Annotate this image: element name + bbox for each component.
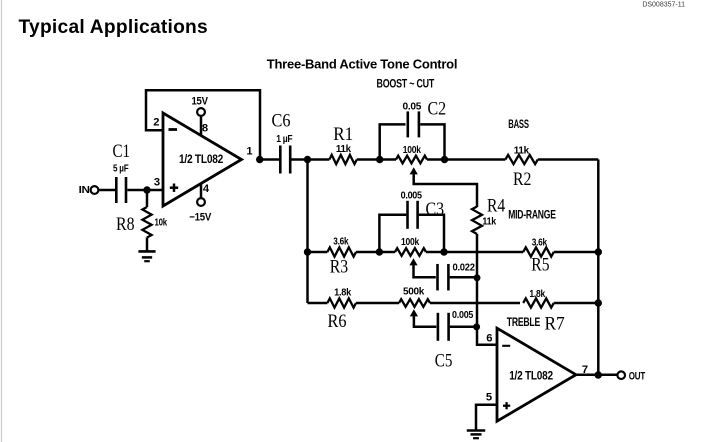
wire IN to C1 — [98, 189, 115, 192]
svg-text:0.005: 0.005 — [452, 310, 474, 321]
node after C6 — [304, 156, 311, 163]
wire -15V supply — [200, 184, 203, 199]
wire bus to R3 — [308, 251, 328, 254]
wire C3 branch right — [419, 215, 444, 252]
svg-text:C2: C2 — [428, 98, 447, 119]
svg-text:10k: 10k — [155, 218, 168, 229]
svg-text:BOOST ~ CUT: BOOST ~ CUT — [377, 77, 435, 91]
resistor R1 — [329, 155, 356, 164]
left bus wire — [306, 160, 309, 304]
svg-text:6: 6 — [486, 332, 492, 344]
svg-text:C1: C1 — [113, 141, 131, 162]
wire R5 to right bus — [554, 251, 599, 254]
wire 15V supply — [200, 116, 203, 136]
svg-text:R1: R1 — [333, 124, 353, 145]
svg-text:TREBLE: TREBLE — [507, 317, 541, 329]
svg-text:3: 3 — [154, 177, 160, 189]
wire R8 to ground — [146, 238, 149, 252]
wire feedback loop U1 — [146, 90, 260, 159]
svg-text:DS008357-11: DS008357-11 — [642, 2, 685, 9]
svg-text:1: 1 — [246, 146, 252, 158]
resistor R4 — [472, 207, 482, 235]
svg-text:100k: 100k — [401, 237, 419, 248]
op-amp U1 minus sign — [169, 128, 178, 131]
svg-text:1.8k: 1.8k — [529, 289, 545, 300]
wiper arrow P2 — [409, 258, 417, 265]
svg-text:C6: C6 — [272, 110, 291, 131]
svg-text:IN: IN — [79, 185, 90, 196]
terminal -15V — [197, 198, 205, 206]
op-amp U2 minus sign — [502, 345, 510, 347]
svg-text:MID-RANGE: MID-RANGE — [508, 210, 556, 222]
svg-text:R7: R7 — [545, 313, 565, 334]
capacitor C3 — [406, 201, 409, 229]
resistor R7 — [523, 298, 554, 307]
ground input — [138, 250, 155, 253]
wire R2 to right bus corner — [538, 158, 599, 161]
svg-text:OUT: OUT — [629, 371, 646, 383]
wire C2 branch left — [380, 124, 406, 159]
terminal IN — [91, 186, 99, 194]
svg-text:15V: 15V — [192, 96, 209, 108]
wire R1 to node — [357, 158, 380, 161]
wire C5 to node Y — [450, 326, 477, 329]
page edge line — [1, 0, 3, 442]
svg-text:BASS: BASS — [508, 119, 529, 131]
node rail A left of pot — [376, 156, 383, 163]
node rail B right of pot — [440, 248, 447, 255]
svg-text:C5: C5 — [435, 351, 453, 372]
svg-text:5 µF: 5 µF — [113, 164, 128, 175]
wire wiper P2 to C4 — [414, 267, 436, 278]
svg-text:Typical Applications: Typical Applications — [19, 17, 208, 38]
svg-text:5: 5 — [486, 391, 492, 403]
svg-text:R2: R2 — [513, 169, 531, 190]
wire C2 branch right — [420, 124, 444, 159]
op-amp U2 1/2 TL082 — [497, 328, 576, 421]
resistor R2 — [505, 155, 537, 164]
svg-text:8: 8 — [202, 123, 208, 135]
wire pot P1 to node — [427, 158, 445, 161]
wire C3 branch left — [379, 215, 406, 252]
svg-text:0.05: 0.05 — [403, 102, 422, 113]
resistor R5 — [523, 247, 554, 256]
wire U1 out to C6 — [260, 158, 280, 161]
ground U2 — [467, 429, 486, 432]
wire wiper P1 to R4 — [414, 176, 477, 208]
wire C4 to node X — [450, 276, 477, 279]
svg-text:3.6k: 3.6k — [532, 238, 548, 249]
wire U2 output — [576, 373, 617, 376]
op-amp U1 plus sign — [170, 186, 178, 189]
wire R7 to right bus — [554, 302, 599, 305]
resistor R6 — [327, 298, 356, 307]
wire node to pot P1 — [380, 158, 396, 161]
wire pot P3 to R7 crossing wiper bus — [430, 302, 520, 305]
node U2 output — [595, 371, 602, 378]
wire R4 to node X — [476, 234, 479, 278]
svg-text:1 µF: 1 µF — [276, 134, 292, 145]
terminal 15V — [197, 108, 205, 116]
svg-text:1.8k: 1.8k — [334, 288, 351, 299]
potentiometer P1 100k bass — [396, 156, 427, 164]
wire wiper P3 to C5 — [414, 318, 436, 327]
capacitor C6 — [279, 146, 282, 174]
wire node to R2 — [445, 158, 506, 161]
svg-text:R8: R8 — [116, 214, 135, 235]
wire node X to node Y — [476, 277, 479, 327]
capacitor C5 — [437, 313, 440, 341]
svg-text:R4: R4 — [487, 196, 506, 217]
right bus wire — [597, 160, 600, 376]
svg-text:11k: 11k — [514, 145, 530, 156]
wire rail A node to R1 — [308, 158, 330, 161]
svg-text:1/2 TL082: 1/2 TL082 — [179, 152, 224, 166]
wire pot P2 to node — [426, 251, 444, 254]
svg-text:C3: C3 — [426, 199, 445, 220]
svg-text:R3: R3 — [330, 256, 348, 277]
node U1 output — [256, 156, 263, 163]
potentiometer P3 500k treble — [399, 299, 430, 307]
wiper arrow P3 — [410, 309, 418, 316]
terminal OUT — [617, 371, 625, 379]
svg-text:1/2 TL082: 1/2 TL082 — [509, 369, 553, 383]
svg-text:Three-Band Active Tone Control: Three-Band Active Tone Control — [267, 57, 457, 72]
node rail B right bus — [595, 248, 602, 255]
svg-text:500k: 500k — [403, 287, 425, 298]
svg-text:0.022: 0.022 — [453, 262, 476, 273]
potentiometer P2 100k mid — [395, 248, 426, 256]
wire node to R5 crossing R4 line — [444, 251, 523, 254]
wire node Y to U2 pin 6 — [477, 327, 497, 345]
svg-text:3.6k: 3.6k — [333, 237, 348, 248]
svg-text:−15V: −15V — [189, 212, 212, 224]
wire R3 to node — [356, 251, 379, 254]
svg-text:R5: R5 — [531, 254, 549, 275]
wire U2 pin 5 to ground — [476, 405, 497, 431]
wire bus corner to R6 — [308, 302, 328, 305]
node rail B left of pot — [376, 248, 383, 255]
capacitor C1 — [115, 177, 118, 203]
wire C1 to node — [127, 189, 163, 192]
svg-text:11k: 11k — [336, 144, 351, 155]
wire node to R8 — [146, 190, 149, 207]
svg-text:100k: 100k — [403, 145, 421, 156]
svg-text:11k: 11k — [482, 217, 496, 228]
svg-text:0.005: 0.005 — [401, 191, 423, 202]
node rail C right bus — [595, 299, 602, 306]
node Y treble junction — [473, 323, 480, 330]
node rail A right of pot — [441, 156, 448, 163]
node input junction — [143, 186, 150, 193]
svg-text:2: 2 — [153, 117, 159, 129]
node rail B left bus — [304, 248, 311, 255]
wiper arrow P1 — [410, 167, 418, 174]
resistor R3 — [327, 247, 356, 256]
capacitor C4 0.022 — [436, 264, 439, 291]
wire R6 to pot P3 — [356, 302, 399, 305]
op-amp U2 plus sign — [503, 405, 510, 407]
resistor R8 — [142, 207, 151, 238]
capacitor C2 — [406, 111, 409, 137]
wire node to pot P2 — [379, 251, 395, 254]
wire C6 to node — [291, 158, 307, 161]
node X mid junction — [474, 274, 481, 281]
svg-text:R6: R6 — [328, 311, 347, 332]
op-amp U1 1/2 TL082 — [163, 113, 242, 206]
